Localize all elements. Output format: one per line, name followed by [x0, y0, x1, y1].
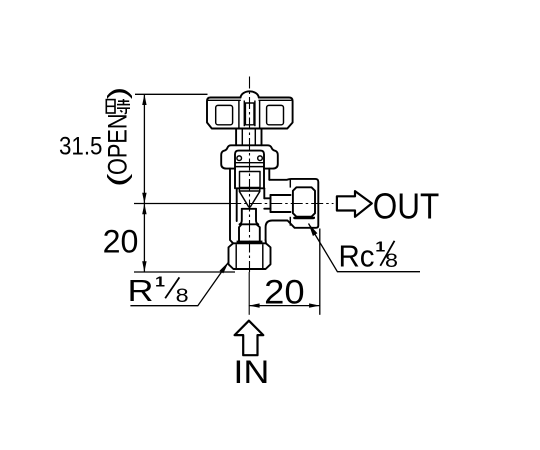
svg-text:1: 1	[375, 239, 385, 256]
svg-text:R: R	[128, 274, 154, 308]
svg-text:8: 8	[385, 251, 398, 272]
svg-text:IN: IN	[233, 354, 269, 390]
svg-text:Rc: Rc	[339, 240, 375, 274]
svg-text:OUT: OUT	[373, 186, 440, 227]
svg-text:1: 1	[155, 274, 165, 291]
svg-text:OPEN: OPEN	[103, 114, 133, 176]
svg-text:31.5: 31.5	[59, 132, 103, 160]
svg-text:): )	[103, 87, 133, 100]
svg-text:20: 20	[103, 223, 139, 259]
svg-text:8: 8	[176, 286, 189, 307]
svg-text:20: 20	[264, 273, 305, 311]
